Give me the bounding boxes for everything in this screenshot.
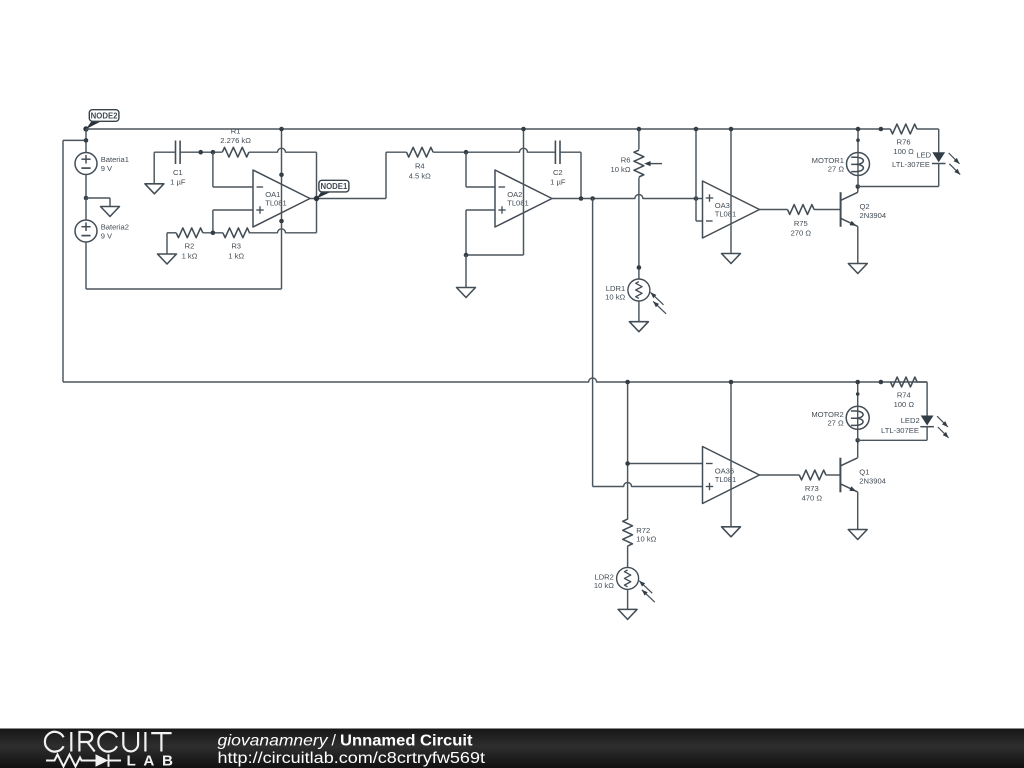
junction dot (879, 380, 884, 385)
junction dot (855, 380, 860, 385)
footer text (218, 732, 486, 767)
wire R2 to R3 (203, 232, 223, 234)
svg-text:Bateria1: Bateria1 (101, 155, 129, 164)
wire LED1 to MOTOR1 bottom (858, 164, 939, 187)
resistor R3 (223, 228, 250, 260)
ground (158, 254, 177, 264)
junction dot (579, 196, 584, 201)
svg-text:TL081: TL081 (715, 475, 737, 484)
ground (629, 322, 648, 332)
junction dot (694, 196, 699, 201)
svg-text:27 Ω: 27 Ω (827, 418, 844, 427)
svg-text:4.5 kΩ: 4.5 kΩ (409, 171, 431, 180)
op-amp OA2 (495, 170, 552, 227)
wire R73 to Q1 base (826, 474, 841, 476)
junction dot (590, 196, 595, 201)
wire R2 left (167, 232, 176, 234)
wire OA2 output (552, 195, 703, 199)
svg-text:10 kΩ: 10 kΩ (605, 293, 625, 302)
wire C2 right (560, 152, 581, 198)
junction dot (625, 461, 630, 466)
wire Q1 emitter (857, 492, 859, 530)
resistor R75 (788, 205, 815, 238)
ground (618, 609, 637, 619)
wire OA3 output (760, 209, 788, 211)
junction dot (729, 380, 734, 385)
svg-text:10 kΩ: 10 kΩ (610, 165, 630, 174)
junction dot (211, 231, 216, 236)
svg-text:TL081: TL081 (507, 199, 529, 208)
svg-text:Bateria2: Bateria2 (101, 222, 129, 231)
svg-text:http://circuitlab.com/c8crtryf: http://circuitlab.com/c8crtryfw569t (218, 750, 486, 767)
wire to ground stub (86, 198, 110, 207)
wire to OA2 inverting (466, 152, 495, 187)
junction dot (637, 265, 642, 270)
wire MOTOR2 top (857, 382, 859, 406)
wire OA1 supply vertical (281, 129, 283, 289)
svg-text:LED2: LED2 (901, 416, 920, 425)
battery Bateria1 (75, 153, 129, 175)
svg-text:NODE2: NODE2 (91, 112, 119, 121)
svg-text:1 kΩ: 1 kΩ (182, 251, 198, 260)
svg-text:/: / (332, 732, 337, 749)
motor MOTOR1 (812, 153, 870, 176)
wire OA2 supply vertical (523, 129, 525, 255)
resistor R76 (890, 124, 917, 156)
junction dot (637, 127, 642, 132)
wire Q1 collector (857, 440, 859, 458)
junction dot (84, 138, 89, 143)
svg-text:2.276 kΩ: 2.276 kΩ (220, 136, 251, 145)
svg-text:R74: R74 (897, 391, 911, 400)
transistor Q1 (840, 458, 886, 493)
junction dot (211, 150, 216, 155)
wire C1 to R1 (180, 151, 222, 153)
wire OA2 non-inverting loop (466, 210, 524, 255)
svg-text:470 Ω: 470 Ω (802, 494, 823, 503)
junction dot (729, 127, 734, 132)
svg-text:2N3904: 2N3904 (860, 211, 887, 220)
svg-text:R6: R6 (621, 155, 631, 164)
wire R75 to Q2 base (814, 209, 841, 211)
wire inverting input (213, 152, 253, 187)
svg-text:270 Ω: 270 Ω (791, 229, 812, 238)
op-amp OA36 (703, 447, 760, 504)
svg-text:Q1: Q1 (859, 468, 869, 477)
wire OA36 plus input (593, 483, 703, 487)
wire top +9V rail (86, 128, 890, 130)
wire -9V bottom rail (86, 288, 282, 290)
svg-text:OA2: OA2 (507, 190, 522, 199)
wire R4 to C2 (433, 148, 555, 152)
svg-text:LED: LED (916, 151, 931, 160)
wire MOTOR2 bottom (857, 430, 859, 441)
junction dot (856, 392, 860, 396)
wire Q2 emitter (857, 226, 859, 263)
svg-text:1 µF: 1 µF (170, 178, 186, 187)
resistor R1 (220, 126, 251, 157)
photoresistor LDR1 (605, 279, 666, 314)
wire OA36 supply (730, 382, 732, 527)
svg-text:10 kΩ: 10 kΩ (594, 581, 614, 590)
svg-text:R1: R1 (231, 126, 241, 135)
svg-text:R2: R2 (185, 242, 195, 251)
svg-text:9 V: 9 V (101, 231, 113, 240)
svg-text:Q2: Q2 (860, 202, 870, 211)
transistor Q2 (841, 192, 887, 227)
ground (722, 527, 741, 537)
svg-text:C2: C2 (553, 168, 563, 177)
wire lower +9V rail (63, 378, 927, 382)
svg-text:R73: R73 (805, 484, 819, 493)
wire LED2 to MOTOR2 bottom (858, 427, 927, 441)
junction dot (856, 184, 861, 189)
svg-text:Unnamed Circuit: Unnamed Circuit (340, 732, 473, 749)
svg-text:9 V: 9 V (101, 164, 113, 173)
wire C1 ground stub (153, 152, 155, 184)
svg-text:1 µF: 1 µF (550, 178, 566, 187)
wire R2 ground stub (166, 233, 168, 254)
svg-text:1 kΩ: 1 kΩ (228, 251, 244, 260)
wire R72 to LDR2 (627, 546, 629, 568)
wire node2 to left loop (63, 139, 86, 141)
junction dot (279, 219, 284, 224)
junction dot (464, 150, 469, 155)
wire non-inverting input (213, 210, 253, 233)
wire battery2 bottom (85, 242, 87, 289)
junction dot (84, 196, 89, 201)
svg-text:2N3904: 2N3904 (859, 477, 886, 486)
motor MOTOR2 (811, 406, 869, 429)
capacitor C2 (550, 141, 566, 187)
ground (457, 288, 476, 298)
svg-text:100 Ω: 100 Ω (894, 400, 915, 409)
wire R74 to LED2 (917, 382, 927, 416)
junction dot (521, 127, 526, 132)
LED LED1 (892, 151, 960, 175)
svg-text:R76: R76 (897, 138, 911, 147)
svg-text:OA3: OA3 (715, 201, 730, 210)
junction dot (198, 150, 203, 155)
svg-text:LTL-307EE: LTL-307EE (892, 160, 930, 169)
capacitor C1 (170, 141, 186, 187)
wire MOTOR1 top (857, 129, 859, 152)
junction dot (279, 127, 284, 132)
wire R1 to feedback corner (249, 148, 317, 152)
junction dot (855, 438, 860, 443)
wire battery2 top (85, 198, 87, 220)
svg-text:OA1: OA1 (265, 190, 280, 199)
op-amp OA3 (703, 181, 760, 238)
junction dot (464, 253, 469, 258)
svg-text:C1: C1 (173, 168, 183, 177)
ground (722, 254, 741, 264)
svg-text:NODE1: NODE1 (320, 182, 348, 191)
footer bar (0, 729, 1024, 768)
wire OA3 supply (730, 129, 732, 254)
wire MOTOR1 bottom (857, 176, 859, 187)
wire feedback bottom (249, 229, 317, 233)
svg-text:10 kΩ: 10 kΩ (636, 534, 656, 543)
svg-text:R3: R3 (231, 242, 241, 251)
node NODE1 flag (314, 180, 349, 201)
node NODE2 flag (83, 110, 119, 132)
junction dot (856, 138, 860, 142)
wire OA2 gnd stub (465, 255, 467, 288)
wire OA36 minus input (628, 463, 703, 465)
junction dot (879, 127, 884, 132)
junction dot (314, 196, 319, 201)
wire OA2 out down to OA36 (592, 199, 594, 487)
battery Bateria2 (75, 220, 129, 242)
svg-text:27 Ω: 27 Ω (828, 165, 845, 174)
wire LDR2 to ground (627, 589, 629, 610)
ground (848, 264, 867, 274)
svg-text:TL081: TL081 (265, 199, 287, 208)
wire R6 to LDR1 (638, 178, 640, 280)
wire OA36 output (760, 474, 800, 476)
potentiometer R6 (610, 150, 662, 177)
wire rail to OA3 inputs (696, 129, 703, 221)
junction dot (625, 380, 630, 385)
ground (145, 184, 164, 194)
wire Q2 collector (857, 187, 859, 193)
svg-text:LAB: LAB (127, 753, 181, 768)
junction dot (279, 173, 284, 178)
resistor R4 (407, 147, 434, 180)
wire battery1 bottom (85, 175, 87, 199)
svg-text:TL081: TL081 (715, 210, 737, 219)
wire LDR1 to ground (638, 301, 640, 322)
svg-text:giovanamnery: giovanamnery (218, 732, 329, 749)
svg-text:R4: R4 (415, 162, 425, 171)
wire rail branch to minus (627, 382, 629, 520)
svg-text:LTL-307EE: LTL-307EE (881, 426, 919, 435)
ground (101, 207, 120, 217)
CircuitLab logo (45, 732, 181, 768)
wire R6 top (638, 129, 640, 150)
LED LED2 (881, 416, 949, 438)
node NODE1 output wire (310, 198, 386, 200)
svg-text:R75: R75 (794, 219, 808, 228)
wire battery1 top (85, 129, 87, 153)
wire C1 left (154, 151, 175, 153)
wire feedback right vertical (316, 152, 318, 233)
resistor R72 (623, 519, 657, 546)
wire left loop vertical (62, 140, 64, 382)
junction dot (856, 127, 861, 132)
junction dot (694, 127, 699, 132)
photoresistor LDR2 (594, 567, 655, 602)
op-amp OA1 (253, 170, 310, 227)
ground (848, 530, 867, 540)
resistor R2 (176, 228, 203, 260)
wire R76 to LED1 (917, 129, 939, 152)
resistor R74 (891, 377, 918, 409)
resistor R73 (799, 470, 826, 503)
wire output up to R4 row (386, 152, 407, 198)
svg-text:100 Ω: 100 Ω (893, 147, 914, 156)
